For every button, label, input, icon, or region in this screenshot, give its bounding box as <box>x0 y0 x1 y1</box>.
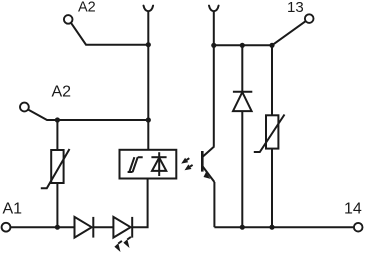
phototransistor Q1 emitter <box>203 167 215 182</box>
svg-text:13: 13 <box>287 0 304 16</box>
label A1 <box>3 200 23 217</box>
hysteresis (Schmitt trigger) symbol inside box <box>128 157 143 172</box>
wire left vertical bus <box>147 11 149 150</box>
varistor RU2 diagonal stroke <box>254 115 285 153</box>
diode V1 triangle <box>75 217 92 238</box>
junction node top bus right <box>269 43 274 48</box>
svg-text:A2: A2 <box>52 83 72 100</box>
varistor RU2 lower lead <box>271 149 273 228</box>
terminal A2 (top) <box>64 15 73 24</box>
suppressor diode inside box: cathode bar <box>151 156 166 158</box>
junction node top bus middle <box>240 43 245 48</box>
junction node on A1 wire at varistor branch <box>55 225 60 230</box>
junction node varistor branch <box>55 117 60 122</box>
freewheeling diode V3 lower lead <box>241 111 243 227</box>
junction node bottom bus at varistor RU2 <box>269 225 274 230</box>
junction node top bus left <box>211 43 216 48</box>
LED V2 triangle <box>113 217 130 238</box>
label 14 <box>344 200 362 217</box>
wire from top bus to terminal 13 <box>272 21 306 45</box>
label A2 (top) <box>78 0 96 16</box>
terminal 14 <box>354 223 363 232</box>
wire varistor branch lower <box>56 183 58 227</box>
optocoupler light arrow 2 <box>185 164 193 170</box>
suppressor diode inside box: triangle <box>152 158 166 171</box>
wire between diode V1 and LED V2 <box>93 226 113 228</box>
wire from terminal A1 to diode V1 <box>10 226 74 228</box>
freewheeling diode V3 upper lead <box>241 45 243 91</box>
varistor RU1 body <box>51 150 63 183</box>
wire LED V2 to input box <box>132 179 147 228</box>
phototransistor Q1 emitter arrowhead <box>204 172 211 179</box>
wire varistor branch upper <box>56 120 58 150</box>
label A2 (middle) <box>52 83 72 100</box>
suppressor diode inside box: vertical lead <box>158 152 160 176</box>
plug connector symbol (right output bus) <box>209 6 219 12</box>
wire right vertical bus upper (to collector) <box>213 11 215 146</box>
freewheeling diode V3 triangle <box>233 92 252 111</box>
input circuit box U1 <box>120 150 177 179</box>
plug connector symbol (left input bus) <box>144 6 154 12</box>
varistor RU1 diagonal stroke <box>41 149 70 188</box>
LED V2 light emission arrow 1 <box>114 241 122 252</box>
junction node on left bus at middle wire <box>146 117 151 122</box>
optocoupler light arrow 1 <box>181 158 189 164</box>
terminal 13 <box>305 14 314 23</box>
junction node on left bus at upper wire <box>146 42 151 47</box>
svg-text:A2: A2 <box>78 0 96 16</box>
LED V2 light emission arrow 2 <box>123 237 130 248</box>
freewheeling diode V3 cathode bar <box>233 91 252 93</box>
LED V2 cathode bar <box>131 217 133 238</box>
bottom output bus wire <box>214 226 354 228</box>
wire from terminal A2 top to left bus <box>71 23 149 45</box>
terminal A1 <box>2 223 11 232</box>
terminal A2 (middle) <box>20 103 29 112</box>
junction node bottom bus at diode V3 <box>240 225 245 230</box>
label 13 <box>287 0 304 16</box>
phototransistor Q1 collector <box>203 146 215 156</box>
svg-text:14: 14 <box>344 200 362 217</box>
varistor RU2 body <box>266 115 278 148</box>
phototransistor Q1 base bar <box>201 151 204 172</box>
varistor RU2 upper lead <box>271 45 273 115</box>
svg-text:A1: A1 <box>3 200 23 217</box>
diode V1 cathode bar <box>92 217 94 238</box>
wire from terminal A2 middle to left bus <box>28 110 148 121</box>
wire right vertical bus lower (from emitter) <box>213 182 215 227</box>
top output bus wire <box>214 44 272 46</box>
